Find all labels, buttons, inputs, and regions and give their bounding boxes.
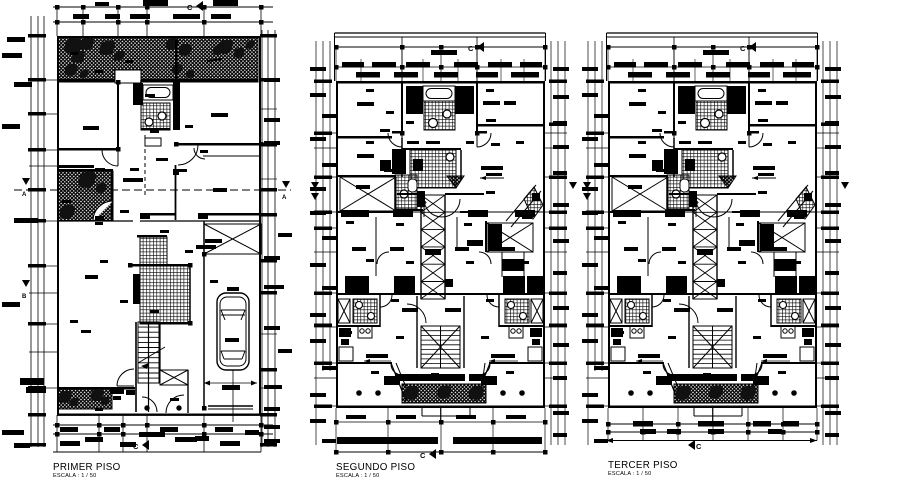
svg-text:ESCALA : 1 / 50: ESCALA : 1 / 50 xyxy=(336,473,379,479)
svg-text:C: C xyxy=(187,3,193,12)
svg-text:A: A xyxy=(22,192,27,198)
svg-text:TERCER PISO: TERCER PISO xyxy=(608,460,678,471)
svg-text:C: C xyxy=(740,44,746,53)
svg-text:ESCALA : 1 / 50: ESCALA : 1 / 50 xyxy=(53,473,96,479)
svg-text:C: C xyxy=(420,451,426,460)
svg-text:B: B xyxy=(22,294,27,300)
svg-text:C: C xyxy=(468,44,474,53)
svg-text:SEGUNDO PISO: SEGUNDO PISO xyxy=(336,462,415,473)
svg-text:PRIMER PISO: PRIMER PISO xyxy=(53,462,121,473)
svg-text:C: C xyxy=(133,442,139,451)
svg-text:C: C xyxy=(696,442,702,451)
svg-text:A: A xyxy=(282,195,287,201)
svg-text:ESCALA : 1 / 50: ESCALA : 1 / 50 xyxy=(608,471,651,477)
